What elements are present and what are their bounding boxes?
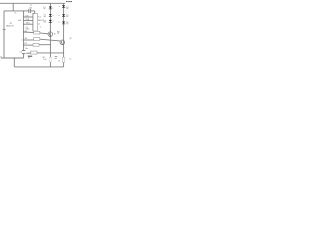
svg-text:6k8: 6k8	[18, 20, 21, 22]
svg-text:THR: THR	[25, 19, 30, 21]
svg-text:100: 100	[43, 59, 46, 61]
svg-text:2: 2	[21, 39, 22, 41]
svg-text:p3: p3	[38, 23, 40, 25]
svg-text:10u: 10u	[25, 48, 28, 50]
svg-text:0v: 0v	[0, 56, 2, 58]
svg-text:TRG: TRG	[26, 22, 31, 24]
svg-text:Q2: Q2	[69, 38, 72, 40]
svg-text:104: 104	[29, 8, 32, 10]
svg-text:1N4148: 1N4148	[6, 25, 14, 27]
svg-text:S1: S1	[14, 13, 16, 15]
